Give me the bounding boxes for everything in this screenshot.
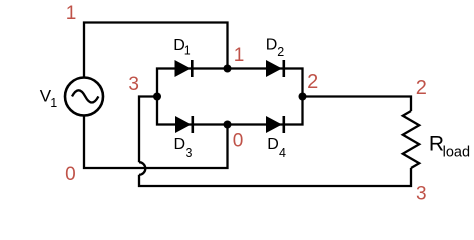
- wire hop over bottom wire: [139, 162, 145, 175]
- svg-text:D: D: [267, 136, 279, 153]
- junction dot node 0: [224, 121, 232, 129]
- diode D1: [175, 60, 194, 77]
- wire bottom lead of source V1 down and right to node 0: [84, 116, 228, 168]
- diode D2: [266, 60, 285, 77]
- wire from hop down to bottom rail to resistor bottom: [139, 168, 411, 186]
- source V1 circle: [65, 78, 103, 116]
- svg-text:0: 0: [65, 164, 76, 185]
- wire node 2 to resistor top: [303, 97, 412, 112]
- svg-text:2: 2: [307, 71, 318, 93]
- svg-text:4: 4: [279, 146, 286, 160]
- wire top from node 1 of source to bridge node 1: [84, 23, 228, 78]
- svg-text:2: 2: [416, 77, 427, 99]
- svg-text:3: 3: [128, 74, 139, 95]
- diode D4: [266, 116, 285, 133]
- svg-text:1: 1: [50, 96, 57, 110]
- svg-text:0: 0: [233, 131, 244, 152]
- svg-text:3: 3: [416, 183, 427, 204]
- svg-text:D: D: [266, 36, 278, 53]
- wire bridge rectangle: [157, 69, 303, 125]
- source V1 sine wave: [72, 90, 98, 102]
- junction dot node 1: [224, 65, 232, 73]
- svg-text:D: D: [174, 136, 186, 153]
- svg-text:3: 3: [186, 146, 193, 160]
- junction dot node 3: [153, 93, 161, 101]
- svg-text:1: 1: [184, 44, 191, 58]
- svg-text:2: 2: [277, 45, 284, 59]
- diode D3: [175, 116, 194, 133]
- svg-text:1: 1: [234, 45, 245, 66]
- svg-text:1: 1: [66, 3, 77, 24]
- wire node 3 stub left from bridge: [139, 97, 157, 163]
- resistor Rload zigzag: [403, 111, 419, 168]
- junction dot node 2: [299, 93, 307, 101]
- svg-text:load: load: [443, 145, 470, 161]
